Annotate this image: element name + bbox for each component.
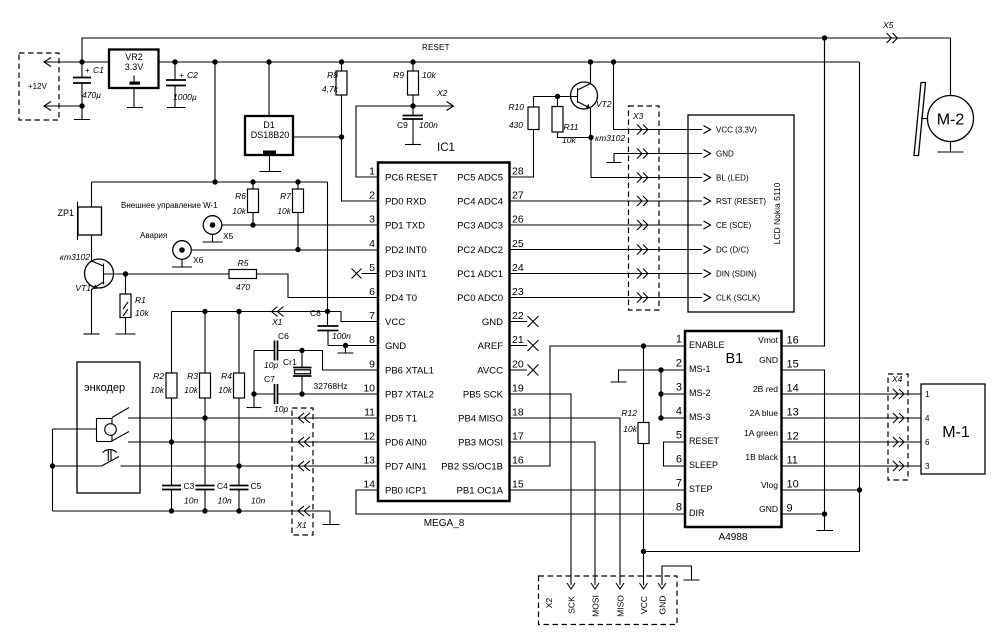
wire Vlog to 3.3V <box>782 489 860 491</box>
capacitor C9 100n <box>397 106 438 144</box>
ground at X1 right <box>323 511 340 525</box>
chevron X1 row phase A <box>298 413 310 423</box>
B1 pin labels left <box>689 340 725 518</box>
svg-text:RESET: RESET <box>422 43 450 52</box>
svg-text:A4988: A4988 <box>719 532 748 543</box>
svg-text:CLK (SCLK): CLK (SCLK) <box>716 294 760 303</box>
wire encoder common down to ground bus <box>52 429 54 511</box>
wire MS-1 with ground <box>611 370 686 382</box>
wire +12V rail to top line <box>82 38 951 62</box>
svg-text:11: 11 <box>364 407 375 419</box>
svg-text:SCK: SCK <box>567 596 577 614</box>
svg-text:CE (SCE): CE (SCE) <box>716 221 751 230</box>
node junction LCD VCC feed on rail <box>611 59 616 64</box>
node junction VT2 collector on rail <box>588 59 593 64</box>
svg-text:ZP1: ZP1 <box>57 208 74 218</box>
chevron X3 row5 <box>637 220 648 230</box>
wire 3.3V sub-rail to pull-ups <box>92 181 328 183</box>
svg-text:GND: GND <box>716 150 734 159</box>
wire ZP1 to VT1 collector <box>91 235 93 261</box>
svg-text:1: 1 <box>369 166 375 178</box>
wire Vmot to 12V <box>782 38 825 346</box>
wire pin27 to LCD RST <box>510 200 703 202</box>
svg-text:+12V: +12V <box>28 82 48 91</box>
arrow into LCD VCC <box>704 126 711 134</box>
svg-text:PB5 SCK: PB5 SCK <box>463 390 504 401</box>
wire R5 to pin6 PD4 T0 <box>257 274 379 298</box>
svg-text:10k: 10k <box>232 206 246 216</box>
wire pin16 PB2 to ENABLE <box>510 346 686 466</box>
svg-text:DS18B20: DS18B20 <box>251 130 290 140</box>
resistor R8 4.7k <box>322 62 347 137</box>
arrow into LCD DIN <box>704 270 711 278</box>
wire rail to R6/R7 line <box>214 62 216 182</box>
no-connect X pin21 AREF <box>510 340 539 351</box>
transistor VT1 <box>60 252 126 334</box>
svg-text:RESET: RESET <box>689 436 720 446</box>
no-connect X pin22 GND <box>510 316 539 327</box>
wire reset node to pin1 PC6 RESET <box>356 106 413 177</box>
svg-text:PD7 AIN1: PD7 AIN1 <box>385 462 427 473</box>
capacitor C1 <box>73 62 104 106</box>
svg-text:4: 4 <box>369 238 375 250</box>
sensor D1 DS18B20 <box>245 116 293 155</box>
svg-text:GND: GND <box>759 504 778 514</box>
IC pin labels right <box>441 173 503 497</box>
svg-text:11: 11 <box>787 455 798 467</box>
resistor R10 430 <box>508 97 539 131</box>
svg-text:SLEEP: SLEEP <box>689 460 718 470</box>
svg-text:R3: R3 <box>187 371 198 381</box>
chevron X3 row4 <box>637 196 648 206</box>
chevron X3 row8 <box>637 293 648 303</box>
node junction R6 top <box>250 179 255 184</box>
node junction R9 top on rail <box>410 59 415 64</box>
svg-text:8: 8 <box>369 334 375 346</box>
svg-text:14: 14 <box>787 383 799 395</box>
ground at pin8 <box>338 346 354 354</box>
wire X5 to pin3 PD1 TXD <box>222 224 378 226</box>
driver B1 A4988 box <box>685 331 782 527</box>
svg-text:1: 1 <box>925 390 930 399</box>
svg-text:10k: 10k <box>184 385 198 395</box>
svg-text:PB3 MOSI: PB3 MOSI <box>458 438 503 449</box>
node junction MS-3 <box>658 415 663 420</box>
svg-text:PC6 RESET: PC6 RESET <box>385 173 438 184</box>
wire MS-2 stub <box>661 393 685 395</box>
svg-text:GND: GND <box>482 317 503 328</box>
svg-text:28: 28 <box>512 166 524 178</box>
svg-text:3: 3 <box>369 214 375 226</box>
wire pin25 to LCD DC <box>510 249 703 251</box>
node junction D1 vcc <box>266 59 271 64</box>
B1 pin labels right <box>744 335 779 514</box>
svg-text:VCC: VCC <box>385 317 405 328</box>
connector X5 chevron on 12V line <box>887 33 898 43</box>
wire 2A blue to M-1 pin4 <box>782 417 922 419</box>
svg-text:10k: 10k <box>218 385 232 395</box>
svg-text:22: 22 <box>512 310 524 322</box>
svg-text:15: 15 <box>512 479 524 491</box>
wire 12V to motor M-2 <box>950 38 952 96</box>
svg-text:32768Hz: 32768Hz <box>314 381 348 391</box>
svg-text:GND: GND <box>658 596 668 615</box>
rotary contact symbol <box>97 408 130 442</box>
svg-text:PD2 INT0: PD2 INT0 <box>385 245 427 256</box>
svg-text:10k: 10k <box>422 70 436 80</box>
wire RESET-SLEEP strap <box>664 442 686 466</box>
svg-text:23: 23 <box>512 286 524 298</box>
node junction R3 on phase A <box>202 415 207 420</box>
svg-text:C7: C7 <box>264 374 275 384</box>
svg-text:10k: 10k <box>135 308 149 318</box>
svg-text:энкодер: энкодер <box>84 382 125 394</box>
svg-text:7: 7 <box>676 478 682 490</box>
arrow X2 MOSI <box>591 583 599 589</box>
wire C8 to pin8 GND <box>328 345 378 347</box>
svg-text:+: + <box>85 65 90 75</box>
node junction R8 bottom <box>339 134 344 139</box>
svg-text:C1: C1 <box>93 65 104 75</box>
chevron X4 row4 <box>893 461 904 471</box>
svg-text:C5: C5 <box>251 481 262 491</box>
svg-text:10: 10 <box>787 479 799 491</box>
svg-text:R12: R12 <box>621 408 637 418</box>
capacitor C5 10n <box>230 481 266 511</box>
svg-text:C4: C4 <box>217 481 228 491</box>
svg-text:D1: D1 <box>263 120 275 130</box>
ground under C2 <box>167 107 186 109</box>
svg-text:4,7k: 4,7k <box>322 84 339 94</box>
node junction R7 bottom <box>295 247 300 252</box>
wire 1B black to M-1 pin3 <box>782 465 922 467</box>
wire pin23 to LCD CLK <box>510 297 703 299</box>
svg-text:X3: X3 <box>632 111 644 121</box>
ground at LCD GND row <box>607 154 622 163</box>
wire GND9 stub <box>782 513 825 515</box>
IC pin labels left <box>385 173 438 497</box>
svg-text:21: 21 <box>512 334 524 346</box>
svg-text:13: 13 <box>363 455 375 467</box>
connector X6 jack <box>172 241 204 267</box>
svg-text:PC4 ADC4: PC4 ADC4 <box>457 197 503 208</box>
node junction reset net <box>410 103 415 108</box>
svg-text:+: + <box>179 70 184 80</box>
wire encoder phase A to pin11 PD5 T1 <box>128 417 378 419</box>
wire pin17 MOSI down to X2 <box>510 442 596 585</box>
svg-text:DIR: DIR <box>689 508 705 518</box>
wire 3.3V rail down right side <box>644 62 860 552</box>
motor M-2 <box>914 83 974 156</box>
svg-text:5: 5 <box>369 262 375 274</box>
svg-text:6: 6 <box>369 286 375 298</box>
svg-text:кт3102: кт3102 <box>60 252 90 262</box>
svg-text:VT1: VT1 <box>75 283 91 293</box>
svg-text:PD6 AIN0: PD6 AIN0 <box>385 438 427 449</box>
ground under crystal leg <box>247 407 262 409</box>
svg-text:100n: 100n <box>419 120 438 130</box>
wire rail to LCD VCC row <box>614 62 703 130</box>
node junction C1 bottom <box>79 103 84 108</box>
svg-text:C3: C3 <box>184 481 195 491</box>
svg-text:GND: GND <box>759 355 778 365</box>
svg-text:10k: 10k <box>150 385 164 395</box>
svg-text:10n: 10n <box>184 496 198 506</box>
wire 12V down to Vmot <box>824 38 826 346</box>
wire pin28 PC5 to R10 <box>510 130 534 178</box>
svg-text:3: 3 <box>925 462 930 471</box>
svg-text:10: 10 <box>363 383 375 395</box>
svg-text:DIN (SDIN): DIN (SDIN) <box>716 270 757 279</box>
wire X2 GND with ground <box>662 566 700 585</box>
svg-text:PD5 T1: PD5 T1 <box>385 414 417 425</box>
node junction C2 <box>172 59 177 64</box>
chevron X4 row3 <box>893 437 904 447</box>
wire rail to D1 <box>268 62 270 116</box>
node junction C5 bottom <box>236 508 241 513</box>
svg-text:18: 18 <box>512 407 524 419</box>
svg-text:C2: C2 <box>187 70 198 80</box>
svg-text:MS-2: MS-2 <box>689 388 711 398</box>
svg-text:8: 8 <box>676 502 682 514</box>
svg-text:5: 5 <box>676 430 682 442</box>
svg-text:M-1: M-1 <box>942 424 970 441</box>
node junction VCC/C8 <box>325 309 330 314</box>
svg-text:2A blue: 2A blue <box>750 408 779 418</box>
motor M-1 box <box>921 384 985 474</box>
svg-text:PB2 SS/OC1B: PB2 SS/OC1B <box>441 462 503 473</box>
svg-text:14: 14 <box>363 479 375 491</box>
node junction MS-2 <box>658 391 663 396</box>
chevron X1 row phase B <box>298 437 310 447</box>
node junction 12V line to Vmot <box>822 35 827 40</box>
wire pull-up bus to VCC node (through X1) <box>172 311 328 313</box>
svg-text:PD3 INT1: PD3 INT1 <box>385 269 427 280</box>
node junction R7 top <box>295 179 300 184</box>
connector X4 (dashed box) <box>888 374 908 480</box>
capacitor C6 10p <box>264 331 289 370</box>
no-connect X pin20 AVCC <box>510 365 539 376</box>
X2 labels rotated <box>544 595 668 617</box>
ground at B1 GND <box>817 514 834 531</box>
wire crystal ground leg <box>253 351 255 408</box>
svg-text:6: 6 <box>925 438 930 447</box>
capacitor C2 <box>166 62 198 107</box>
node junction VCC feed at X2 <box>641 549 646 554</box>
crystal Cr1 32768Hz <box>283 351 348 395</box>
svg-text:PB7 XTAL2: PB7 XTAL2 <box>385 390 434 401</box>
svg-text:470: 470 <box>236 282 250 292</box>
resistor R9 10k <box>393 62 436 106</box>
wire VT1 base to R5 <box>126 273 230 275</box>
svg-text:9: 9 <box>787 503 793 515</box>
wire XTAL2 line <box>254 393 378 395</box>
chevron X3 row1 <box>637 125 648 135</box>
wire +12V upper input with arrow <box>44 58 109 67</box>
svg-text:DC (D/C): DC (D/C) <box>716 246 749 255</box>
svg-text:9: 9 <box>369 359 375 371</box>
resistor R11 10k <box>552 97 591 146</box>
arrow X2 SCK <box>567 583 575 589</box>
svg-text:19: 19 <box>512 383 524 395</box>
wire 3.3V rail <box>159 61 860 63</box>
svg-text:Cr1: Cr1 <box>283 357 297 367</box>
arrow into LCD RST <box>704 197 711 205</box>
chevron X3 row2 <box>637 149 648 159</box>
svg-text:MEGA_8: MEGA_8 <box>424 518 465 529</box>
node junction VT1 base / R1 <box>123 271 128 276</box>
wire VT2 base net <box>534 96 578 98</box>
node junction crystal top <box>299 348 304 353</box>
svg-text:VCC: VCC <box>639 596 649 614</box>
svg-text:X1: X1 <box>296 520 308 530</box>
svg-text:C6: C6 <box>278 331 289 341</box>
wire MS-3 stub <box>661 417 685 419</box>
wire encoder ground bus <box>53 510 331 512</box>
svg-text:16: 16 <box>787 335 799 347</box>
wire GND15 down <box>782 370 825 514</box>
svg-text:7: 7 <box>369 310 375 322</box>
wire D1 data to node <box>293 136 342 138</box>
resistor R1 10k <box>120 274 149 334</box>
svg-text:26: 26 <box>512 214 524 226</box>
svg-text:R8: R8 <box>327 70 338 80</box>
svg-text:R9: R9 <box>393 70 404 80</box>
connector X2 (dashed box) <box>539 576 678 625</box>
svg-text:16: 16 <box>512 455 524 467</box>
wire 1A green to M-1 pin6 <box>782 441 922 443</box>
svg-text:24: 24 <box>512 262 524 274</box>
node junction C1 top <box>79 59 84 64</box>
wire pin14 PB0 ICP1 to DIR <box>356 490 685 514</box>
connector X3 (dashed box) <box>629 106 660 310</box>
node junction R11 top <box>555 94 560 99</box>
svg-text:1B black: 1B black <box>745 452 778 462</box>
svg-text:MOSI: MOSI <box>591 595 601 617</box>
arrow X2 GND <box>658 583 666 589</box>
wire pin19 SCK down to X2 <box>510 394 572 585</box>
chevron X4 row2 <box>893 413 904 423</box>
svg-text:PD0 RXD: PD0 RXD <box>385 197 426 208</box>
ground under VT1 emitter <box>84 333 100 335</box>
node junction C6/C7 ground <box>251 391 256 396</box>
svg-text:PB6 XTAL1: PB6 XTAL1 <box>385 366 434 377</box>
svg-text:BL (LED): BL (LED) <box>716 174 749 183</box>
wire 2B red to M-1 pin1 <box>782 393 922 395</box>
svg-text:MS-1: MS-1 <box>689 364 711 374</box>
node junction rail x215 <box>212 59 217 64</box>
box encoder <box>77 362 140 493</box>
svg-text:12: 12 <box>363 431 375 443</box>
node junction R12 top <box>641 343 646 348</box>
IC U1 ATmega8 box <box>378 163 510 502</box>
svg-text:100n: 100n <box>332 331 351 341</box>
svg-text:X2: X2 <box>544 598 554 609</box>
node junction GND15/GND9 <box>822 511 827 516</box>
chevron X3 row7 <box>637 269 648 279</box>
svg-text:X6: X6 <box>193 255 204 265</box>
svg-text:10k: 10k <box>623 424 637 434</box>
LCD pin labels <box>716 126 766 303</box>
svg-text:R10: R10 <box>508 102 524 112</box>
svg-text:PB4 MISO: PB4 MISO <box>458 414 503 425</box>
svg-text:VT2: VT2 <box>596 99 612 109</box>
svg-text:RST (RESET): RST (RESET) <box>716 197 766 206</box>
svg-text:10p: 10p <box>264 360 278 370</box>
arrow X2 MISO <box>616 583 624 589</box>
svg-text:6: 6 <box>676 454 682 466</box>
resistor R4 10k <box>218 312 244 486</box>
svg-text:X4: X4 <box>891 374 903 384</box>
svg-text:кт3102: кт3102 <box>595 133 625 143</box>
svg-text:1A green: 1A green <box>744 428 778 438</box>
svg-text:20: 20 <box>512 359 524 371</box>
wire pull-up rail down to VCC node <box>327 182 329 312</box>
svg-text:MISO: MISO <box>616 595 626 617</box>
wire emitter to LCD BL row <box>591 138 702 178</box>
svg-text:10k: 10k <box>562 135 576 145</box>
svg-text:AVCC: AVCC <box>477 366 503 377</box>
svg-text:10k: 10k <box>277 206 291 216</box>
svg-text:R5: R5 <box>238 258 249 268</box>
node junction GND pin8 <box>343 343 348 348</box>
arrow into LCD BL <box>704 174 711 182</box>
node junction C3 bottom <box>169 508 174 513</box>
svg-text:X2: X2 <box>436 88 448 98</box>
svg-text:Vmot: Vmot <box>758 335 778 345</box>
node junction common/button <box>50 463 55 468</box>
node junction R4 top <box>236 309 241 314</box>
M-1 pin numbers <box>925 390 930 471</box>
wire encoder phase B to pin12 PD6 AIN0 <box>128 441 378 443</box>
svg-text:Vlog: Vlog <box>761 480 778 490</box>
svg-text:LCD Nokia 5110: LCD Nokia 5110 <box>772 182 782 244</box>
IC pin numbers left <box>363 166 375 491</box>
svg-text:PC0 ADC0: PC0 ADC0 <box>457 293 503 304</box>
display LCD Nokia 5110 box <box>688 115 794 312</box>
svg-text:Авария: Авария <box>140 231 167 240</box>
node junction R3 top <box>202 309 207 314</box>
svg-text:M-2: M-2 <box>937 112 965 129</box>
svg-text:X1: X1 <box>271 317 283 327</box>
ground under C9 <box>405 144 421 146</box>
svg-text:PC5 ADC5: PC5 ADC5 <box>457 173 503 184</box>
svg-text:15: 15 <box>787 359 799 371</box>
svg-text:GND: GND <box>385 341 406 352</box>
connector X2 reset arrow <box>413 102 454 111</box>
ground under C1 <box>74 106 90 120</box>
svg-text:27: 27 <box>512 190 524 202</box>
node junction R6 bottom <box>250 222 255 227</box>
wire LCD GND row <box>614 153 702 155</box>
arrow into LCD CE <box>704 221 711 229</box>
connector X1 (dashed box) <box>292 408 313 535</box>
resistor R5 470 <box>229 258 257 292</box>
capacitor C4 10n <box>196 481 232 511</box>
wire +12V lower input with arrow <box>44 102 82 111</box>
wire sub-rail down to buzzer ZP1 <box>91 182 93 207</box>
svg-text:3: 3 <box>676 382 682 394</box>
node junction R8 top on rail <box>339 59 344 64</box>
svg-text:R7: R7 <box>280 191 291 201</box>
svg-text:10n: 10n <box>251 496 265 506</box>
svg-text:C9: C9 <box>397 120 408 130</box>
wire button left segment <box>53 465 102 467</box>
svg-text:PD4 T0: PD4 T0 <box>385 293 417 304</box>
svg-text:R2: R2 <box>153 371 164 381</box>
node junction Vlog <box>857 487 862 492</box>
svg-text:4: 4 <box>676 406 682 418</box>
